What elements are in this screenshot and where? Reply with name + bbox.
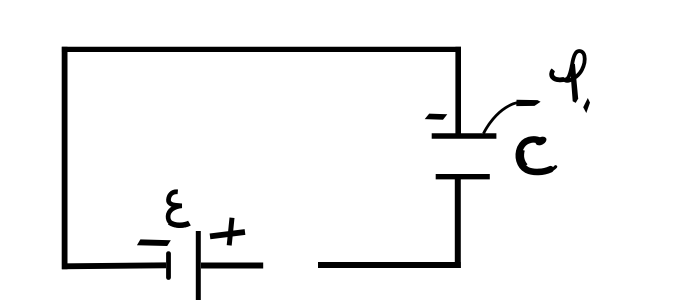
wire bottom middle segment bbox=[201, 263, 263, 269]
capacitor label C bbox=[519, 139, 551, 172]
capacitor C top plate bbox=[432, 133, 497, 138]
comma after q bbox=[583, 98, 590, 113]
battery plus sign bbox=[210, 232, 245, 236]
battery positive plate (long) bbox=[196, 231, 201, 300]
battery negative plate (short) bbox=[166, 254, 171, 278]
capacitor minus sign (top plate charge) bbox=[425, 114, 448, 120]
wire right lower bbox=[455, 177, 461, 268]
battery minus sign bbox=[137, 239, 171, 246]
capacitor C bottom plate bbox=[436, 174, 490, 179]
charge label q bbox=[551, 51, 584, 81]
wire left bbox=[62, 47, 68, 269]
wire bottom right segment bbox=[318, 262, 461, 268]
wire top bbox=[62, 47, 461, 52]
wire right upper bbox=[455, 47, 461, 135]
wire bottom left segment bbox=[62, 265, 166, 266]
leader line from q to top plate bbox=[484, 103, 518, 134]
emf label epsilon bbox=[168, 192, 190, 226]
